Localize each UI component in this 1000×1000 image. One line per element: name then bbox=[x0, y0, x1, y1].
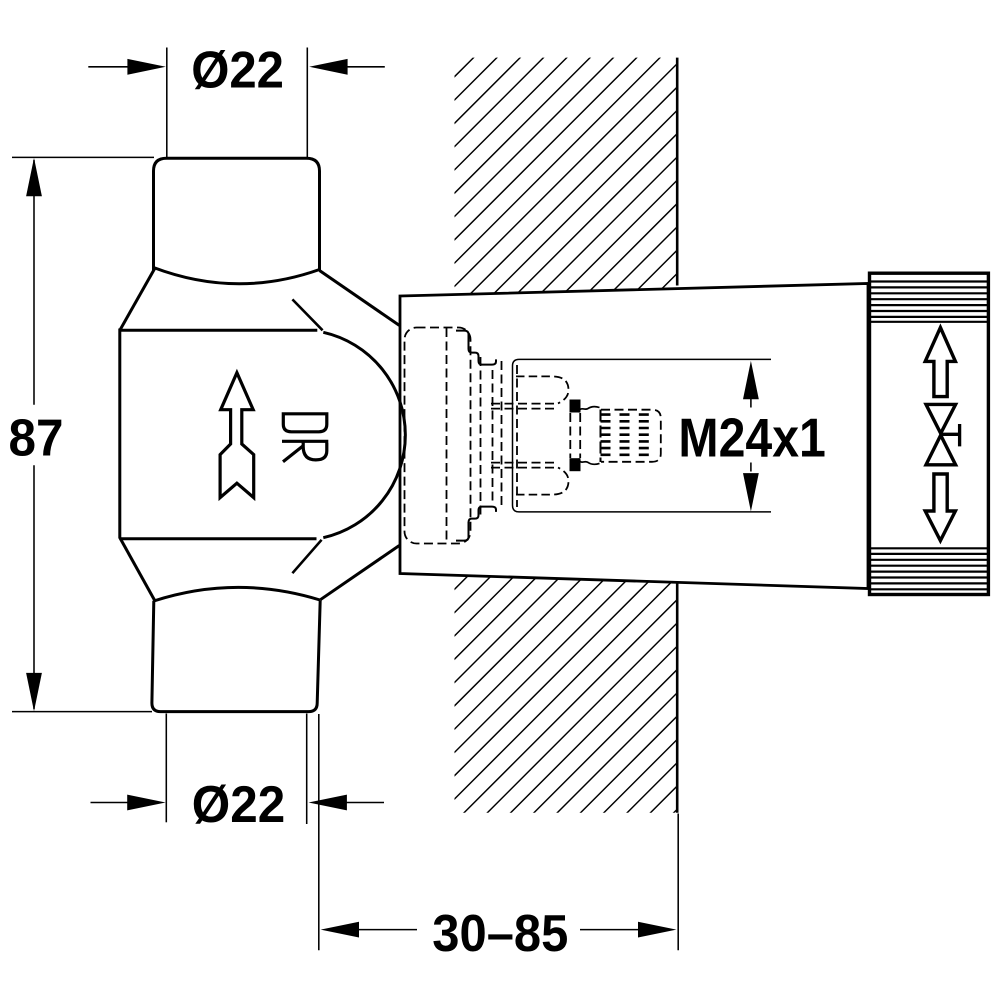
dim top line right bbox=[345, 66, 385, 68]
hidden valve housing dashed divider bbox=[446, 328, 448, 543]
dim bottom line right bbox=[345, 802, 385, 804]
thread block dashed outline bbox=[601, 410, 661, 462]
thread block hatch dashes bbox=[601, 415, 649, 455]
wall hatch section lines bbox=[0, 55, 1000, 815]
symbol valve upper triangle bbox=[926, 404, 956, 433]
dim 3085 line right bbox=[580, 929, 640, 931]
dim 87 ext top bbox=[12, 156, 154, 158]
symbol arrow down bbox=[925, 474, 955, 541]
dim 87 ext bottom bbox=[12, 711, 152, 713]
arrowhead top left bbox=[127, 59, 165, 75]
break line bottom bbox=[292, 540, 321, 573]
symbol valve stem bbox=[941, 424, 960, 446]
top pipe bottom ellipse arc bbox=[154, 268, 320, 284]
arrowhead 87 top bbox=[26, 158, 42, 196]
dim M24 line bbox=[750, 399, 752, 472]
hex body top face bbox=[120, 329, 317, 332]
wall right edge lower bbox=[676, 584, 679, 813]
dim bottom ext left bbox=[165, 714, 167, 823]
dim bottom ext right bbox=[306, 714, 308, 825]
arrowhead bottom left bbox=[127, 795, 165, 811]
svg-text:Ø22: Ø22 bbox=[191, 42, 284, 100]
shoulder bottom left bbox=[120, 538, 155, 601]
shoulder bottom right bbox=[320, 546, 399, 600]
sleeve inner step top bbox=[456, 331, 496, 365]
dashed step line b bbox=[492, 370, 494, 505]
sleeve inner step bottom bbox=[456, 507, 496, 541]
bottom pipe top ellipse arc bbox=[154, 587, 320, 601]
arrowhead M24 up bbox=[743, 361, 759, 399]
svg-text:M24x1: M24x1 bbox=[678, 407, 826, 469]
M24 extension bracket bbox=[513, 359, 772, 512]
bonnet step dashed c bbox=[501, 361, 503, 508]
DR marking letter R bbox=[282, 441, 328, 461]
hidden valve housing dashed rect outer bbox=[405, 328, 471, 544]
wall right edge upper bbox=[676, 58, 679, 286]
shoulder top right bbox=[320, 271, 400, 326]
dashed spindle lines between seals bbox=[570, 413, 580, 458]
svg-text:Ø22: Ø22 bbox=[192, 776, 285, 834]
arrowhead bottom right bbox=[309, 795, 347, 811]
bonnet step dashed d bbox=[516, 365, 518, 507]
arrowhead 3085 right bbox=[638, 922, 676, 938]
symbol arrow up bbox=[925, 328, 955, 397]
seal square top bbox=[570, 400, 581, 413]
break line top bbox=[292, 299, 322, 330]
arrowhead top right bbox=[309, 59, 347, 75]
svg-text:87: 87 bbox=[9, 409, 64, 467]
thread block left dashed edge bbox=[600, 410, 602, 463]
knurled knob body bbox=[870, 273, 989, 594]
DR marking letter D bbox=[283, 414, 327, 432]
seal square bottom bbox=[570, 458, 581, 471]
dashed step line a bbox=[480, 357, 482, 518]
bottom outlet pipe bbox=[152, 600, 320, 711]
knurl lines top bbox=[870, 282, 989, 322]
arrowhead 3085 left bbox=[321, 922, 359, 938]
symbol valve lower triangle bbox=[926, 435, 956, 465]
shoulder top left bbox=[120, 268, 155, 330]
hidden spindle shaft top lines bbox=[491, 404, 558, 409]
clip squiggle top bbox=[579, 407, 600, 413]
hex body bottom face bbox=[120, 537, 317, 540]
hex body left edge bbox=[118, 329, 121, 539]
svg-text:30–85: 30–85 bbox=[432, 905, 568, 963]
dim 87 line bbox=[33, 160, 35, 709]
dim top line left bbox=[88, 66, 131, 68]
bonnet nose top dashed bbox=[516, 376, 569, 403]
knurl lines bottom bbox=[870, 548, 989, 589]
dim top ext left bbox=[166, 48, 168, 158]
dim 3085 line left bbox=[356, 929, 417, 931]
hidden spindle shaft bottom lines bbox=[491, 463, 558, 468]
bonnet nose bottom dashed bbox=[516, 468, 569, 495]
protective sleeve body bbox=[400, 284, 868, 589]
round boss arc bbox=[323, 332, 405, 537]
arrowhead M24 down bbox=[743, 473, 759, 511]
clip squiggle bottom bbox=[579, 458, 600, 464]
top inlet pipe bbox=[154, 158, 320, 270]
dim 3085 ext left bbox=[318, 714, 320, 950]
flow direction arrow bbox=[220, 373, 254, 498]
arrowhead 87 bottom bbox=[26, 673, 42, 711]
dim 3085 ext right bbox=[677, 814, 679, 951]
dim bottom line left bbox=[91, 802, 131, 804]
dim top ext right bbox=[306, 48, 308, 158]
